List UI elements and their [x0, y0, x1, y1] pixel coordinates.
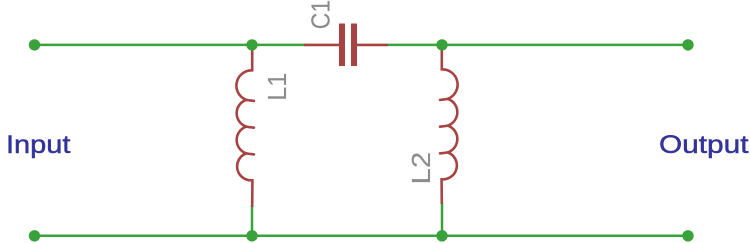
node junction top L2: [436, 39, 447, 50]
inductor L1 cusp stub 1: [247, 99, 254, 103]
inductor L1 cusp stub 3: [247, 152, 254, 155]
node junction top L1: [246, 39, 257, 50]
node terminal top-left: [29, 39, 40, 50]
svg-text:L2: L2: [406, 152, 436, 185]
wire top-left green segment: [35, 44, 306, 47]
inductor L2 cusp stub 3: [440, 151, 447, 154]
node terminal top-right: [682, 39, 693, 50]
inductor L2: [442, 45, 458, 204]
node junction bottom L1: [246, 230, 257, 241]
wire L1 bottom green segment: [251, 205, 254, 236]
inductor L2 cusp stub 2: [440, 124, 447, 128]
svg-text:Input: Input: [6, 131, 71, 159]
svg-text:L1: L1: [262, 73, 292, 101]
svg-text:C1: C1: [305, 0, 335, 29]
inductor L2 cusp stub 1: [440, 98, 447, 102]
inductor L1: [236, 45, 252, 207]
node terminal bottom-left: [29, 230, 40, 241]
node junction bottom L2: [436, 230, 447, 241]
wire bottom green rail: [35, 235, 689, 238]
node terminal bottom-right: [682, 230, 693, 241]
wire L2 bottom green segment: [441, 203, 444, 236]
svg-text:Output: Output: [659, 131, 749, 159]
inductor L1 cusp stub 2: [247, 125, 254, 129]
wire top-right green segment: [388, 44, 688, 47]
capacitor C1: [304, 24, 388, 67]
